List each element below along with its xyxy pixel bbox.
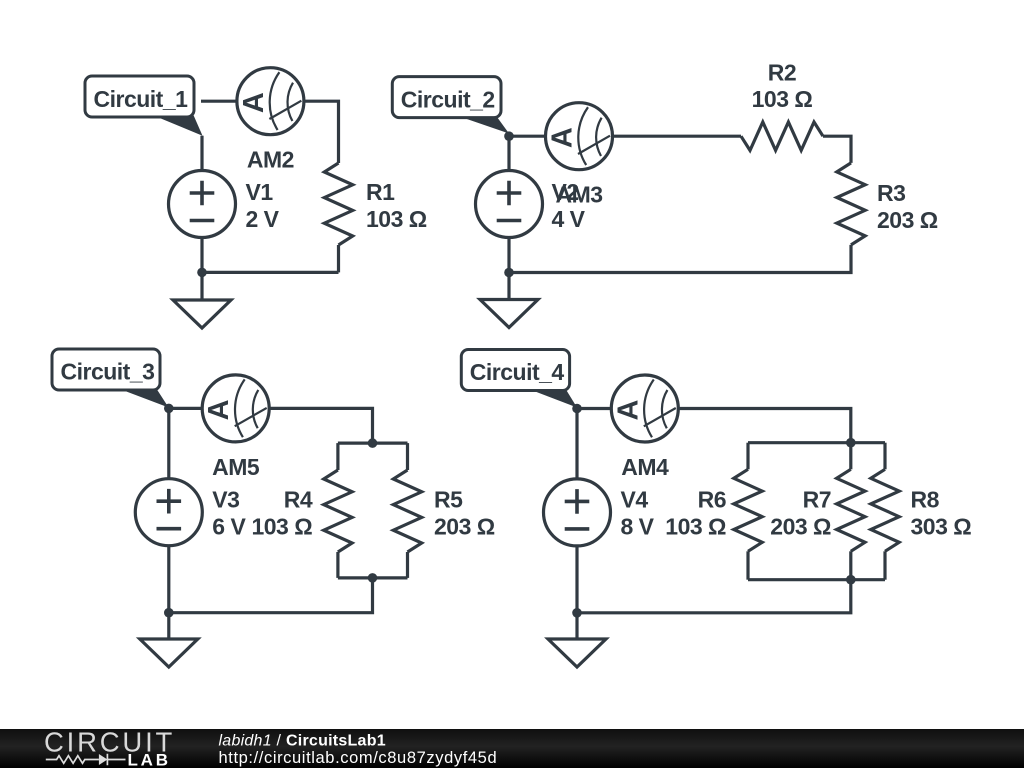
- svg-text:103 Ω: 103 Ω: [366, 206, 427, 232]
- svg-text:R1: R1: [366, 179, 395, 205]
- svg-text:Circuit_3: Circuit_3: [61, 359, 155, 385]
- voltage source V1: [169, 171, 236, 238]
- svg-text:http://circuitlab.com/c8u87zyd: http://circuitlab.com/c8u87zydyf45d: [219, 749, 498, 767]
- footer bar: [0, 729, 1024, 768]
- wire R6 bottom stub: [746, 551, 749, 579]
- resistor R6: [734, 469, 762, 551]
- ammeter AM5: [202, 375, 269, 442]
- wire bottom rail: [338, 576, 408, 579]
- node junction dot top: [164, 404, 174, 414]
- label R2 value: [752, 60, 813, 112]
- svg-text:R4: R4: [284, 487, 313, 513]
- logo resistor-diode glyph: [46, 754, 126, 765]
- ground: [480, 300, 538, 328]
- flag label Circuit_3 tail: [117, 388, 169, 408]
- svg-text:Circuit_4: Circuit_4: [470, 359, 565, 385]
- svg-text:R6: R6: [698, 487, 726, 513]
- wire top rail: [748, 441, 885, 444]
- wire bottom rail: [748, 578, 885, 581]
- wire bottom horizontal: [202, 271, 339, 274]
- node junction dot rail bottom: [368, 573, 378, 583]
- svg-text:203 Ω: 203 Ω: [434, 514, 495, 540]
- wire R2 to R3 top: [823, 136, 851, 163]
- node junction dot top: [572, 404, 582, 414]
- svg-text:AM4: AM4: [621, 454, 669, 480]
- wire rail to bottom horizontal: [169, 578, 373, 613]
- flag label Circuit_2 box: [392, 77, 501, 118]
- label R5 value: [434, 487, 495, 540]
- svg-text:Circuit_2: Circuit_2: [401, 87, 495, 113]
- resistor R4: [324, 470, 352, 552]
- wire R4 bottom stub: [336, 552, 339, 578]
- svg-text:203 Ω: 203 Ω: [877, 207, 938, 233]
- node junction dot top: [504, 131, 514, 141]
- svg-text:303 Ω: 303 Ω: [911, 514, 972, 540]
- wire label to ammeter: [201, 100, 237, 103]
- wire V4 bottom to ground: [575, 546, 578, 639]
- svg-text:103 Ω: 103 Ω: [752, 86, 813, 112]
- wire R8 top stub: [883, 443, 886, 470]
- node junction dot rail top: [368, 438, 378, 448]
- voltage source V2: [476, 171, 543, 238]
- resistor R7: [837, 469, 865, 551]
- svg-text:4 V: 4 V: [552, 206, 586, 232]
- svg-text:R7: R7: [803, 487, 831, 513]
- svg-text:103 Ω: 103 Ω: [251, 514, 312, 540]
- svg-text:labidh1 / CircuitsLab1: labidh1 / CircuitsLab1: [219, 733, 386, 750]
- label R7 value: [770, 487, 831, 540]
- label V2 value: [552, 179, 586, 232]
- ammeter AM3: [546, 103, 613, 170]
- ground: [173, 300, 231, 328]
- svg-text:Circuit_1: Circuit_1: [94, 86, 189, 112]
- wire node to ammeter: [509, 135, 546, 138]
- wire V1 bottom to ground: [200, 238, 203, 301]
- node junction dot rail bottom: [846, 575, 856, 585]
- svg-text:V1: V1: [246, 179, 274, 205]
- resistor R3: [837, 163, 865, 245]
- svg-text:V2: V2: [552, 179, 579, 205]
- wire ammeter to top rail: [269, 408, 372, 443]
- voltage source V3: [135, 479, 202, 546]
- wire R5 top stub: [406, 443, 409, 470]
- wire node to ammeter: [169, 407, 202, 410]
- svg-text:2 V: 2 V: [246, 206, 280, 232]
- label V1 value: [246, 179, 280, 232]
- svg-text:AM5: AM5: [212, 454, 260, 480]
- svg-text:103 Ω: 103 Ω: [665, 514, 726, 540]
- svg-text:203 Ω: 203 Ω: [770, 514, 831, 540]
- resistor R5: [393, 470, 421, 552]
- svg-text:6 V: 6 V: [212, 514, 246, 540]
- svg-text:R3: R3: [877, 180, 905, 206]
- wire R3 bottom: [509, 245, 851, 273]
- wire R4 top stub: [336, 443, 339, 470]
- label R4 value: [251, 487, 312, 540]
- wire node to V3 top: [167, 408, 170, 478]
- ammeter AM4: [611, 375, 678, 442]
- svg-text:AM2: AM2: [247, 147, 294, 173]
- flag label Circuit_1 tail: [150, 114, 203, 136]
- node junction dot bottom: [504, 268, 514, 278]
- wire R7 top stub: [849, 443, 852, 470]
- svg-text:R8: R8: [911, 487, 940, 513]
- wire R6 top stub: [746, 443, 749, 470]
- wire ammeter to R2: [613, 135, 742, 138]
- flag label Circuit_2 tail: [457, 116, 509, 134]
- wire rail to bottom horizontal: [577, 580, 851, 613]
- resistor R1: [324, 163, 352, 245]
- wire ammeter to top rail: [678, 409, 851, 443]
- wire R7 bottom stub: [849, 551, 852, 579]
- svg-text:R2: R2: [768, 60, 796, 86]
- label R1 value: [366, 179, 427, 232]
- svg-text:R5: R5: [434, 487, 463, 513]
- label R6 value: [665, 487, 726, 540]
- flag label Circuit_1 box: [85, 76, 194, 117]
- resistor R2: [741, 122, 823, 150]
- node junction dot rail top: [846, 438, 856, 448]
- voltage source V4: [544, 479, 611, 546]
- svg-text:V3: V3: [212, 487, 239, 513]
- wire node to ammeter: [577, 407, 611, 410]
- ground: [140, 639, 198, 667]
- wire ammeter to R1 top: [304, 101, 339, 163]
- flag label Circuit_4 tail: [526, 388, 577, 408]
- svg-text:V4: V4: [621, 487, 649, 513]
- wire V3 bottom to ground: [167, 546, 170, 639]
- label V3 value: [212, 487, 246, 540]
- wire node to V4 top: [575, 409, 578, 479]
- wire R8 bottom stub: [883, 551, 886, 579]
- wire node to V2 top: [507, 136, 510, 170]
- resistor R8: [871, 469, 899, 551]
- svg-text:LAB: LAB: [128, 751, 171, 768]
- flag label Circuit_4 box: [461, 350, 569, 391]
- wire R5 bottom stub: [406, 552, 409, 578]
- label R3 value: [877, 180, 938, 233]
- wire flag tail to V1 top: [200, 136, 203, 171]
- ground: [548, 639, 606, 667]
- svg-text:8 V: 8 V: [621, 514, 655, 540]
- flag label Circuit_3 box: [52, 349, 160, 390]
- wire V2 bottom to ground: [507, 238, 510, 300]
- node junction dot: [197, 268, 207, 278]
- node junction dot bottom: [164, 608, 174, 618]
- wire R1 bottom: [337, 245, 340, 272]
- wire top rail: [338, 442, 408, 445]
- node junction dot bottom: [572, 608, 582, 618]
- ammeter AM2: [237, 68, 304, 135]
- label V4 value: [621, 487, 655, 540]
- label R8 value: [911, 487, 972, 540]
